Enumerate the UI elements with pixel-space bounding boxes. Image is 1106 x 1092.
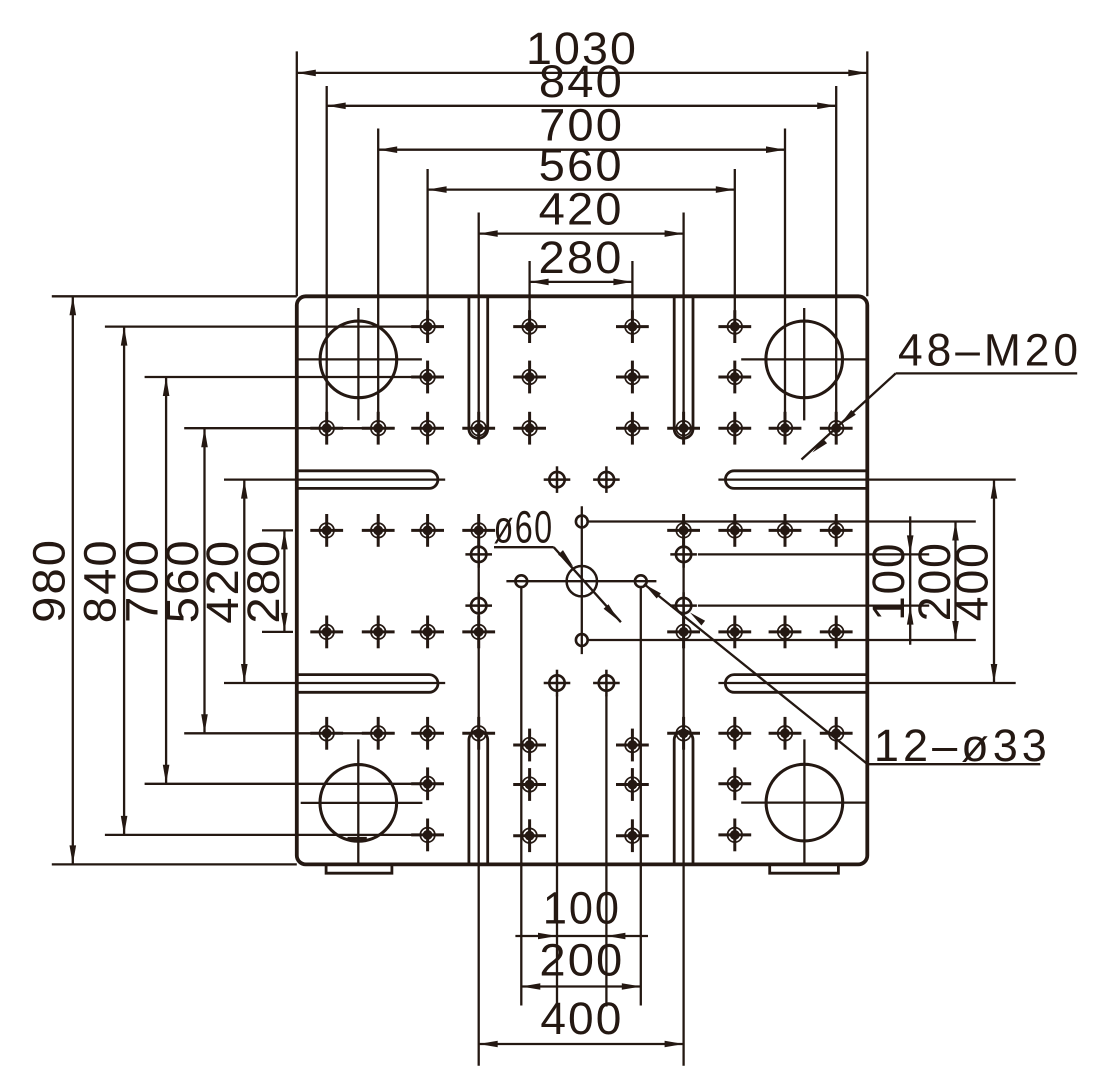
- dimension 560 (left): [203, 428, 205, 733]
- top-right slot centerline + 400 dim extension: [718, 478, 1015, 480]
- extension line 980 top: [52, 295, 297, 297]
- svg-text:12–ø33: 12–ø33: [874, 720, 1051, 771]
- dimension 700 (top): [378, 149, 785, 151]
- dimension 280 (left): [283, 530, 285, 632]
- centre horizontal centerline: [506, 580, 656, 582]
- dia33 holes (circle-cross symbols): [544, 466, 571, 493]
- dimension 100 (right): [909, 516, 911, 644]
- tie bar hole bottom-left: [320, 765, 397, 842]
- row line r6 / left 560 dim extension bottom: [184, 732, 395, 734]
- tie bar BR vertical centerline: [803, 739, 805, 863]
- svg-text:200: 200: [539, 935, 624, 986]
- extension line 700 right / column c9: [784, 129, 786, 444]
- vertical T-slot bottom-right: [674, 731, 693, 865]
- svg-text:ø60: ø60: [494, 502, 554, 553]
- dimension 400 (bottom): [479, 1043, 684, 1045]
- tie bar BR horizontal centerline: [741, 801, 867, 803]
- row line r7 / left 700 dim extension bottom: [145, 783, 412, 785]
- leader and label 12-dia33: [868, 763, 1041, 765]
- column line q2 / bottom 100 dim extension left: [556, 696, 558, 1007]
- dimension 840 (top): [327, 105, 837, 107]
- column line c4 / bottom 400 dim extension left: [478, 514, 480, 1066]
- horizontal T-slot bottom-right: [725, 675, 867, 693]
- row line s3 / right 100 dim extension bottom: [698, 604, 929, 606]
- row line s2 / right 100 dim extension top: [698, 553, 929, 555]
- column line c7 / bottom 400 dim extension right: [682, 514, 684, 1066]
- M20 tapped hole grid: third row: [310, 412, 343, 445]
- dia60 locating hole: [567, 566, 597, 596]
- extension line 280 left / column c5: [528, 261, 530, 343]
- column line q4 / bottom 200 dim extension right: [640, 587, 642, 1005]
- dia33 holes (small circles around centre): [515, 575, 527, 587]
- extension line 1030 right: [866, 51, 868, 296]
- left 280 dim extension bottom: [262, 631, 293, 633]
- leader and label dia60: [494, 546, 554, 548]
- dimension 420 (top): [479, 232, 684, 234]
- dimension 840 (left): [123, 327, 125, 835]
- chord mark below bottom-left tie bar hole: [348, 837, 367, 840]
- svg-text:400: 400: [946, 541, 997, 621]
- vertical T-slot top-left: [469, 296, 488, 438]
- extension line 700 left / column c2: [377, 129, 379, 444]
- svg-text:280: 280: [539, 232, 624, 283]
- svg-text:100: 100: [863, 542, 914, 621]
- extension line 840 right / column c10: [835, 86, 837, 444]
- extension line 280 right / column c6: [631, 261, 633, 343]
- column line q3 / bottom 100 dim extension right: [605, 696, 607, 1007]
- svg-text:420: 420: [539, 184, 624, 235]
- row line s1 / right 200 dim extension top: [588, 520, 976, 522]
- leader and label 48-M20: [896, 372, 1077, 374]
- vertical T-slot bottom-left: [469, 731, 488, 865]
- tie bar TR vertical centerline: [803, 308, 805, 420]
- row line r8 / left 840 dim extension bottom: [105, 834, 444, 836]
- extension line 560 right / column c8: [734, 169, 736, 343]
- tie bar TL vertical centerline: [357, 308, 359, 420]
- dimension 420 (left): [243, 480, 245, 683]
- tie bar hole top-left: [320, 321, 397, 398]
- row line r1 / left 840 dim extension top: [105, 325, 444, 327]
- dimension 200 (bottom): [521, 985, 641, 987]
- dimension 100 (bottom): [515, 935, 648, 937]
- dimension 400 (right): [993, 480, 995, 683]
- tie bar BL vertical centerline: [357, 739, 359, 863]
- dimension 200 (right): [954, 522, 956, 641]
- svg-text:100: 100: [543, 883, 621, 934]
- dimension 1030 (top): [297, 72, 868, 74]
- mounting pad bottom-right: [770, 864, 839, 873]
- extension line 420 right / slot centre c7: [682, 213, 684, 416]
- tie bar TL horizontal centerline: [297, 358, 422, 360]
- extension line 840 left / column c1: [326, 86, 328, 444]
- dimension 980 (left): [72, 296, 74, 864]
- svg-text:48–M20: 48–M20: [898, 325, 1082, 376]
- tie bar hole top-right: [766, 321, 843, 398]
- left 280 dim extension top: [262, 529, 293, 531]
- vertical T-slot top-right: [674, 296, 693, 438]
- bottom-right slot centerline + 400 dim extension: [718, 682, 1015, 684]
- row line r2 / left 700 dim extension top: [145, 376, 443, 378]
- M20 tapped hole grid: lower row: [310, 717, 343, 750]
- horizontal T-slot top-right: [725, 471, 867, 489]
- row line r3 / left 560 dim extension top: [184, 427, 395, 429]
- tie bar TR horizontal centerline: [741, 358, 867, 360]
- svg-text:980: 980: [23, 538, 74, 623]
- mounting pad bottom-left: [326, 864, 392, 873]
- bottom-left slot centerline + 420 dim extension: [224, 682, 445, 684]
- column line q1 / bottom 200 dim extension left: [520, 587, 522, 1005]
- row line s4 / right 200 dim extension bottom: [588, 639, 976, 641]
- M20 tapped hole grid: top rows: [411, 310, 444, 343]
- dimension 560 (top): [428, 188, 735, 190]
- M20 tapped hole grid: bottom centre cluster: [513, 729, 546, 762]
- dimension 280 (top): [530, 281, 633, 283]
- top-left slot centerline + 420 dim extension: [224, 478, 445, 480]
- tie bar hole bottom-right: [766, 764, 843, 841]
- horizontal T-slot top-left: [297, 471, 438, 489]
- M20 tapped hole grid: middle rows: [310, 514, 343, 547]
- horizontal T-slot bottom-left: [297, 675, 438, 693]
- extension line 420 left / slot centre c4: [478, 213, 480, 416]
- M20 tapped hole grid: bottom side clusters: [411, 767, 444, 800]
- extension line 560 left / column c3: [426, 169, 428, 343]
- tie bar BL horizontal centerline: [301, 802, 423, 804]
- extension line 1030 left: [296, 51, 298, 296]
- dimension 700 (left): [165, 377, 167, 784]
- svg-text:400: 400: [540, 993, 623, 1044]
- centre vertical centerline: [581, 506, 583, 654]
- platen plate outline: [297, 296, 868, 864]
- svg-text:280: 280: [238, 539, 289, 624]
- extension line 980 bottom: [52, 863, 297, 865]
